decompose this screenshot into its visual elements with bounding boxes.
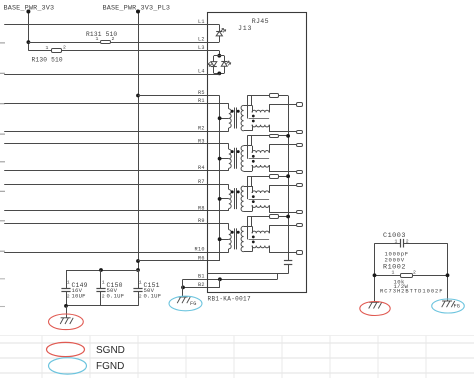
- wire L2 right segment: [110, 42, 207, 44]
- legend FGND blue ellipse: [49, 358, 87, 374]
- wire CM3 bottom out: [269, 205, 271, 212]
- svg-text:R4: R4: [198, 165, 205, 171]
- wire R7: [4, 184, 229, 186]
- svg-text:2: 2: [102, 294, 105, 300]
- svg-text:2000V: 2000V: [385, 256, 405, 263]
- wire C1003 right: [404, 243, 448, 245]
- wire L3 to diode pair: [207, 50, 219, 52]
- choke CM1 bottom winding: [252, 125, 269, 127]
- transformer T2 core: [234, 148, 236, 169]
- wire T2 termination tap vertical: [247, 136, 249, 159]
- wire L1: [4, 24, 207, 26]
- transformer T4 primary top lead: [228, 224, 230, 230]
- wire C1003 left: [375, 243, 401, 245]
- wire T1 primary center tap: [220, 118, 229, 120]
- wire T3 termination tap vertical: [247, 176, 249, 199]
- choke CM4 core line: [249, 239, 270, 241]
- node BASE_PWR_3V3 junction: [27, 40, 31, 44]
- pin stub 4b: [297, 251, 303, 255]
- wire R2: [4, 131, 229, 133]
- choke CM4 top winding: [252, 231, 269, 233]
- wire CM1 bottom out: [269, 125, 271, 132]
- SGND right red ellipse marker: [360, 302, 390, 316]
- svg-text:L2: L2: [198, 37, 205, 43]
- wire T4 primary center tap: [220, 239, 229, 241]
- node CM2 top phase dot: [252, 155, 255, 158]
- pin stub 4a: [297, 224, 303, 227]
- node PL3-R6 junction: [136, 259, 140, 263]
- FGND right blue ellipse marker: [432, 299, 465, 313]
- wire T4 secondary top riser: [251, 217, 253, 227]
- transformer T3 primary top lead: [228, 185, 230, 190]
- svg-text:R9: R9: [198, 218, 205, 224]
- wire shield bottom horizontal: [207, 273, 288, 275]
- wire T2 primary center tap: [220, 158, 229, 160]
- node rail-RT4 junction: [286, 215, 290, 219]
- svg-text:1: 1: [46, 45, 49, 51]
- wire CM2 top out: [269, 145, 271, 153]
- node T4 secondary phase dot: [237, 231, 240, 234]
- wire L4: [4, 74, 207, 76]
- wire R9: [4, 223, 229, 225]
- resistor R1002: [375, 275, 401, 277]
- wire T1 secondary top: [244, 105, 252, 107]
- svg-text:J13: J13: [238, 25, 252, 32]
- pin stub 2b: [297, 171, 303, 174]
- capacitor C1003: [400, 239, 402, 248]
- wire L3 right segment: [62, 50, 207, 52]
- node BASE_PWR_3V3_PL3 connection dot: [136, 10, 140, 14]
- legend table grid: [0, 336, 474, 379]
- transformer T3 core: [234, 188, 236, 209]
- node CM1 bottom phase dot: [252, 120, 255, 123]
- node BASE_PWR_3V3 connection dot: [26, 10, 30, 14]
- svg-text:FG: FG: [190, 301, 196, 307]
- node R1002 left junction: [373, 273, 377, 277]
- node T4 center tap junction: [218, 237, 222, 241]
- transformer T2 primary top lead: [228, 144, 230, 149]
- transformer T2 secondary winding: [241, 146, 244, 172]
- connector J13 box outline: [208, 13, 307, 293]
- wire T3 primary center tap: [220, 198, 229, 200]
- wire BASE_PWR_3V3 vertical: [28, 11, 30, 51]
- wire T3 secondary top riser: [251, 176, 253, 186]
- wire T3 secondary top: [244, 186, 252, 188]
- wire left diode branch top: [213, 56, 215, 62]
- svg-text:R1: R1: [198, 98, 205, 104]
- capacitor C151: [138, 270, 140, 288]
- wire diode pair top bar: [214, 55, 224, 57]
- wire T1 secondary bottom: [244, 130, 252, 132]
- svg-text:1: 1: [392, 269, 395, 275]
- svg-text:L1: L1: [198, 19, 205, 25]
- wire L1 to LED1: [207, 24, 219, 26]
- pin stub 2a: [297, 144, 303, 147]
- wire CM1 top out: [269, 105, 271, 113]
- node T3 primary phase dot: [231, 190, 234, 193]
- svg-text:R130 510: R130 510: [32, 57, 63, 64]
- svg-text:B1: B1: [198, 274, 205, 280]
- choke CM2 bottom winding: [252, 165, 269, 167]
- transformer T4 core: [234, 228, 236, 249]
- svg-text:1: 1: [67, 279, 70, 285]
- choke CM3 bottom winding: [252, 205, 269, 207]
- choke CM3 top winding: [252, 191, 269, 193]
- legend SGND red ellipse: [47, 342, 85, 356]
- choke CM3 core line: [249, 199, 270, 201]
- resistor R130: [52, 49, 62, 53]
- transformer T3 primary bottom lead: [228, 209, 230, 212]
- wire R1002 right vertical: [447, 243, 449, 301]
- wire right diode branch bottom: [224, 66, 226, 73]
- transformer T3 secondary winding: [241, 186, 244, 212]
- node CM3 bottom phase dot: [252, 200, 255, 203]
- wire CM3 top out: [269, 185, 271, 193]
- svg-text:R8: R8: [198, 205, 205, 211]
- svg-text:0.1UF: 0.1UF: [107, 293, 125, 300]
- node PL3-caps junction: [136, 268, 140, 272]
- svg-text:R3: R3: [198, 138, 205, 144]
- svg-text:RC73H2BTTD1002F: RC73H2BTTD1002F: [380, 289, 444, 295]
- svg-text:0.1UF: 0.1UF: [144, 293, 162, 300]
- wire termination rail: [288, 96, 290, 261]
- choke CM2 core line: [249, 158, 270, 160]
- svg-text:2: 2: [139, 294, 142, 300]
- node R1002 right junction: [446, 273, 450, 277]
- node T3 secondary phase dot: [237, 190, 240, 193]
- node CM4 top phase dot: [252, 236, 255, 239]
- resistor RT2 termination: [247, 135, 269, 137]
- resistor RT4 termination: [247, 216, 269, 218]
- transformer T1 primary winding: [229, 109, 231, 128]
- node CM2 bottom phase dot: [252, 160, 255, 163]
- svg-text:1: 1: [96, 36, 99, 42]
- svg-text:R10: R10: [195, 247, 205, 253]
- LED D3 right (points up): [221, 61, 227, 63]
- wire CM2 bottom out: [269, 165, 271, 172]
- capacitor shield internal: [284, 260, 292, 262]
- ground FGND right: [442, 301, 455, 307]
- node rail-RT2 junction: [286, 134, 290, 138]
- node C149 bottom junction: [64, 304, 68, 308]
- wire diode pair to L4: [219, 72, 221, 75]
- node B2 ground junction: [181, 286, 185, 290]
- SGND red ellipse marker: [49, 314, 84, 330]
- transformer T1 primary bottom lead: [228, 128, 230, 131]
- page edge tick marks: [0, 43, 5, 307]
- transformer T3 primary winding: [229, 190, 231, 209]
- node T3 center tap junction: [218, 197, 222, 201]
- svg-text:2: 2: [67, 294, 70, 300]
- wire right diode branch top: [224, 56, 226, 62]
- wire left diode branch bottom: [213, 66, 215, 73]
- pin stub 3b: [297, 211, 303, 214]
- choke CM1 top winding: [252, 110, 269, 112]
- choke CM1 core line: [249, 118, 270, 120]
- wire diode pair bottom bar: [214, 73, 224, 75]
- wire R4: [4, 170, 229, 172]
- node T2 primary phase dot: [231, 150, 234, 153]
- wire R3: [4, 143, 229, 145]
- wire B1: [183, 279, 278, 281]
- node rail-RT3 junction: [286, 174, 290, 178]
- pin stub 1b: [297, 131, 303, 134]
- node T2 center tap junction: [218, 157, 222, 161]
- wire T4 secondary top: [244, 226, 252, 228]
- transformer T4 secondary winding: [241, 226, 244, 252]
- svg-text:SGND: SGND: [96, 345, 125, 356]
- node C150 top junction: [99, 268, 103, 272]
- pin stub 3a: [297, 184, 303, 187]
- wire R5: [138, 95, 220, 97]
- transformer T1 secondary winding: [241, 105, 244, 130]
- FGND blue ellipse marker: [169, 296, 202, 311]
- svg-text:B2: B2: [198, 282, 205, 288]
- svg-text:2: 2: [413, 269, 416, 275]
- ground FG middle: [177, 297, 190, 303]
- wire T4 termination tap vertical: [247, 217, 249, 240]
- svg-text:R2: R2: [198, 126, 205, 132]
- wire CM4 bottom out: [269, 246, 271, 253]
- wire R8: [4, 210, 229, 212]
- wire capacitor bottom rail: [66, 305, 138, 307]
- wire T1 secondary top riser: [251, 96, 253, 106]
- wire L3 left segment: [28, 50, 51, 52]
- node diode pair top junction: [217, 54, 221, 58]
- node T1 center tap junction: [218, 116, 222, 120]
- svg-text:L4: L4: [198, 69, 205, 75]
- transformer T2 primary winding: [229, 149, 231, 168]
- node CM4 bottom phase dot: [252, 241, 255, 244]
- svg-text:L3: L3: [198, 45, 205, 51]
- pin stub 1a: [297, 103, 303, 107]
- wire B1 riser to shield line: [277, 274, 279, 280]
- node T2 secondary phase dot: [237, 150, 240, 153]
- node CM1 top phase dot: [252, 115, 255, 118]
- wire B1 to FG ground: [182, 279, 184, 297]
- node PL3-R5 junction: [136, 94, 140, 98]
- wire T4 secondary bottom: [244, 251, 252, 253]
- LED D1: [216, 31, 222, 33]
- resistor RT3 termination: [247, 176, 269, 178]
- wire B2: [183, 287, 220, 289]
- wire T2 secondary top: [244, 145, 252, 147]
- svg-text:R7: R7: [198, 179, 205, 185]
- node CM3 top phase dot: [252, 195, 255, 198]
- wire R1002 left vertical: [374, 243, 376, 302]
- wire L2 left segment: [28, 42, 100, 44]
- wire T1 termination tap vertical: [247, 96, 249, 119]
- node T1 primary phase dot: [231, 110, 234, 113]
- wire LED1 to L2: [219, 36, 221, 42]
- transformer T2 primary bottom lead: [228, 168, 230, 171]
- capacitor C149: [66, 270, 68, 288]
- transformer T4 primary bottom lead: [228, 249, 230, 252]
- transformer T1 core: [234, 108, 236, 129]
- node B1-B2 link junction: [218, 277, 222, 281]
- wire center-tap vertical bus: [219, 96, 221, 262]
- wire R1: [4, 103, 229, 105]
- ground SGND left: [60, 318, 73, 324]
- wire R10: [4, 252, 229, 254]
- transformer T4 primary winding: [229, 230, 231, 249]
- wire T2 secondary top riser: [251, 136, 253, 146]
- svg-text:1: 1: [102, 279, 105, 285]
- svg-text:10UF: 10UF: [72, 293, 86, 300]
- resistor R131: [101, 41, 111, 44]
- wire to SGND ground: [66, 306, 68, 318]
- svg-text:R6: R6: [198, 255, 205, 261]
- choke CM2 top winding: [252, 151, 269, 153]
- transformer T1 primary top lead: [228, 104, 230, 109]
- capacitor C150: [100, 270, 102, 288]
- wire T2 secondary bottom: [244, 171, 252, 173]
- svg-text:1: 1: [139, 279, 142, 285]
- svg-text:RB1-KA-0017: RB1-KA-0017: [208, 295, 252, 302]
- node T4 primary phase dot: [231, 231, 234, 234]
- wire B1-B2 internal vertical: [219, 279, 221, 287]
- resistor RT1 termination: [247, 95, 269, 97]
- svg-text:FG: FG: [454, 304, 460, 310]
- svg-text:R5: R5: [198, 90, 205, 96]
- wire T3 secondary bottom: [244, 211, 252, 213]
- LED D2 left (points down): [211, 62, 217, 67]
- choke CM4 bottom winding: [252, 246, 269, 248]
- node diode pair bottom junction: [217, 72, 221, 76]
- node T1 secondary phase dot: [237, 110, 240, 113]
- ground SGND right: [369, 302, 382, 308]
- svg-text:2: 2: [112, 36, 115, 42]
- wire R6: [138, 260, 220, 262]
- wire CM4 top out: [269, 225, 271, 233]
- svg-text:RJ45: RJ45: [252, 18, 269, 25]
- svg-text:2: 2: [63, 44, 66, 50]
- wire BASE_PWR_3V3_PL3 vertical rail: [138, 11, 140, 288]
- svg-text:FGND: FGND: [96, 361, 124, 372]
- svg-text:1: 1: [395, 239, 398, 245]
- wire capacitor top rail: [66, 270, 138, 272]
